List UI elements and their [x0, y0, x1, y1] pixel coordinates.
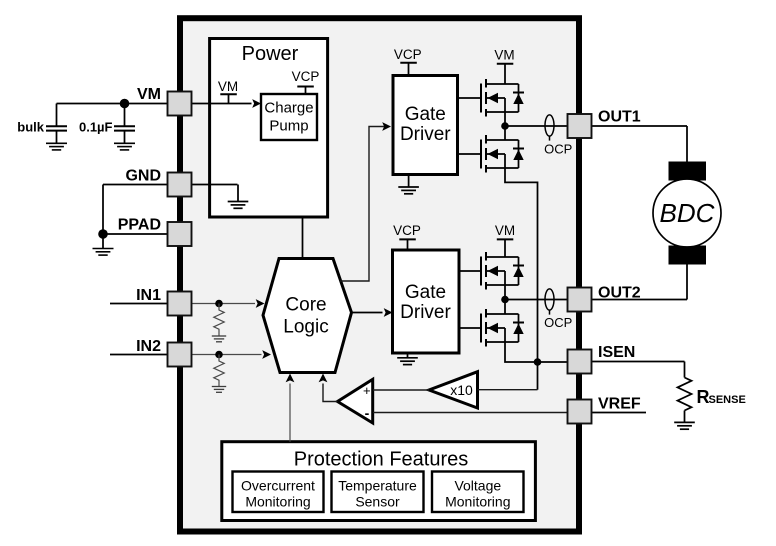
- svg-text:Logic: Logic: [283, 317, 328, 338]
- svg-text:VM: VM: [494, 48, 514, 63]
- svg-text:VCP: VCP: [394, 47, 422, 62]
- svg-text:OCP: OCP: [544, 315, 572, 330]
- svg-text:VREF: VREF: [598, 396, 641, 413]
- svg-text:x10: x10: [450, 382, 473, 398]
- svg-text:Charge: Charge: [264, 100, 313, 117]
- svg-text:VCP: VCP: [393, 223, 421, 238]
- svg-text:Temperature: Temperature: [338, 478, 417, 494]
- svg-text:Pump: Pump: [269, 118, 308, 135]
- svg-text:OCP: OCP: [544, 141, 572, 156]
- svg-text:Overcurrent: Overcurrent: [241, 478, 315, 494]
- svg-text:Monitoring: Monitoring: [445, 494, 510, 510]
- svg-text:VCP: VCP: [292, 69, 320, 84]
- svg-text:GND: GND: [125, 168, 161, 185]
- svg-text:Voltage: Voltage: [454, 478, 501, 494]
- svg-text:-: -: [365, 405, 370, 421]
- svg-text:PPAD: PPAD: [118, 217, 161, 234]
- svg-text:VM: VM: [495, 223, 515, 238]
- svg-text:Power: Power: [242, 43, 299, 65]
- svg-text:OUT2: OUT2: [598, 285, 641, 302]
- svg-text:+: +: [363, 383, 371, 398]
- svg-text:bulk: bulk: [17, 120, 44, 135]
- svg-text:VM: VM: [137, 86, 161, 103]
- svg-text:Sensor: Sensor: [355, 494, 400, 510]
- svg-text:IN2: IN2: [136, 338, 161, 355]
- svg-text:Driver: Driver: [400, 302, 451, 323]
- svg-text:IN1: IN1: [136, 287, 161, 304]
- svg-text:OUT1: OUT1: [598, 109, 641, 126]
- svg-text:Monitoring: Monitoring: [245, 494, 310, 510]
- svg-text:Gate: Gate: [405, 282, 446, 303]
- svg-text:SENSE: SENSE: [709, 394, 746, 406]
- svg-text:VM: VM: [218, 79, 238, 94]
- svg-text:Protection Features: Protection Features: [294, 449, 469, 471]
- svg-text:0.1µF: 0.1µF: [79, 120, 113, 135]
- svg-text:Driver: Driver: [400, 124, 451, 145]
- svg-text:BDC: BDC: [660, 198, 715, 228]
- svg-text:Core: Core: [285, 295, 326, 316]
- svg-text:ISEN: ISEN: [598, 344, 635, 361]
- svg-text:Gate: Gate: [405, 104, 446, 125]
